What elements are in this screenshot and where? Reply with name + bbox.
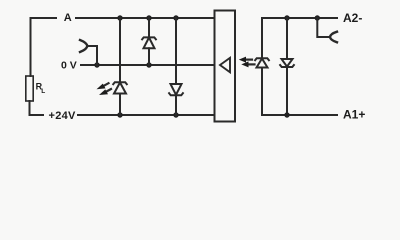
junction right bottom rail at diode column: [284, 112, 289, 117]
wire diode to +24V rail: [175, 95, 177, 115]
wire protection diode column upper: [286, 18, 288, 59]
svg-text:L: L: [41, 88, 45, 95]
svg-text:A: A: [64, 12, 72, 24]
connector socket (output tap): [330, 32, 337, 43]
wire resistor to +24V rail corner: [30, 101, 44, 115]
wire right section bottom rail: [262, 114, 337, 116]
wire A to amplifier box: [76, 17, 214, 19]
junction right top rail at diode column: [284, 15, 289, 20]
wire diode column upper: [175, 18, 177, 84]
svg-text:A2-: A2-: [343, 11, 362, 25]
junction top rail at zener column: [146, 15, 151, 20]
wire connector to 0V rail: [87, 46, 97, 65]
resistor RL: [26, 76, 33, 101]
svg-text:+24V: +24V: [49, 110, 77, 122]
wire 0V rail to box: [81, 64, 214, 66]
wire top-left corner to A label: [31, 18, 57, 76]
zener diode Z1: [142, 37, 156, 48]
junction 0V rail at zener column: [146, 62, 151, 67]
optocoupler light arrows: [245, 60, 255, 65]
wire zener to 0V: [148, 48, 150, 65]
wire to output connector: [317, 18, 330, 37]
LED light arrows: [102, 83, 111, 92]
junction top rail at LED column: [117, 15, 122, 20]
junction right top rail at connector column: [315, 15, 320, 20]
junction bottom rail at LED column: [117, 112, 122, 117]
junction bottom rail at diode column: [173, 112, 178, 117]
wire +24V rail to box: [78, 114, 214, 116]
amplifier box U1: [215, 11, 236, 122]
zener diode Z2: [169, 84, 183, 95]
wire protection diode column lower: [286, 67, 288, 115]
wire right section top rail: [262, 17, 337, 19]
optocoupler LED D2: [255, 58, 269, 67]
wire LED column lower: [119, 94, 121, 116]
wire zener column upper: [148, 18, 150, 37]
junction top rail at diode column: [173, 15, 178, 20]
connector socket (0V test tap): [80, 40, 87, 52]
LED D1 (indicator): [113, 82, 127, 93]
wire LED column upper: [119, 18, 121, 82]
protection diode D3: [280, 59, 294, 67]
svg-text:0 V: 0 V: [61, 59, 77, 71]
wire opto LED column upper: [261, 18, 263, 58]
svg-text:A1+: A1+: [343, 107, 365, 121]
amplifier triangle: [220, 58, 230, 73]
junction 0V rail at connector column: [94, 62, 99, 67]
wire opto LED column lower: [261, 68, 263, 116]
